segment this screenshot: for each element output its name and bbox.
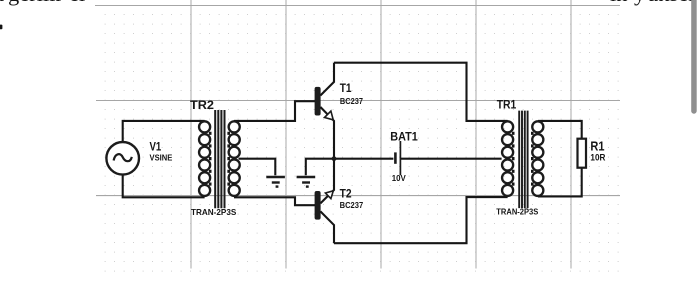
svg-text:n: n: [0, 0, 4, 6]
svg-text:VSINE: VSINE: [150, 153, 173, 163]
svg-text:y: y: [634, 0, 646, 6]
svg-text:10V: 10V: [392, 173, 406, 183]
svg-text:TRAN-2P3S: TRAN-2P3S: [191, 207, 237, 217]
svg-text:BAT1: BAT1: [390, 130, 418, 144]
svg-text:ın: ın: [610, 0, 628, 6]
svg-text:V1: V1: [150, 140, 162, 154]
svg-text:TR1: TR1: [497, 98, 517, 112]
svg-text:T1: T1: [340, 81, 352, 95]
svg-text:TR2: TR2: [190, 98, 214, 112]
svg-text:T2: T2: [340, 186, 352, 200]
svg-text:10R: 10R: [590, 152, 605, 162]
svg-text:el: el: [69, 0, 85, 6]
svg-text:gerilir: gerilir: [8, 0, 63, 6]
svg-text:BC237: BC237: [340, 96, 363, 106]
svg-text:BC237: BC237: [340, 200, 364, 210]
svg-text:üksel: üksel: [647, 0, 695, 6]
svg-text:TRAN-2P3S: TRAN-2P3S: [496, 207, 538, 217]
